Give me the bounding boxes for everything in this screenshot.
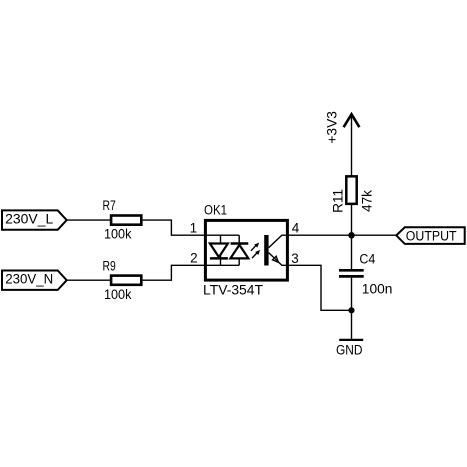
connector flag OUTPUT: [396, 227, 464, 244]
svg-text:LTV-354T: LTV-354T: [203, 283, 263, 298]
phototransistor base bar (OK1): [264, 235, 268, 266]
resistor R7: [111, 216, 141, 225]
wire R11 to node A: [351, 204, 353, 235]
LED D1 (anode up, pointing down): [210, 244, 228, 259]
optocoupler OK1 body: [205, 220, 287, 280]
wire node A to C4: [351, 235, 353, 269]
wire LED frame vertical left: [220, 235, 222, 265]
svg-text:OUTPUT: OUTPUT: [406, 229, 457, 244]
svg-text:R11: R11: [331, 189, 346, 213]
light arrow 2: [252, 250, 260, 258]
wire R9 to pin 2: [143, 265, 240, 280]
svg-text:R7: R7: [103, 198, 116, 213]
svg-text:C4: C4: [359, 251, 375, 266]
phototransistor emitter line: [269, 253, 282, 266]
svg-text:+3V3: +3V3: [325, 111, 340, 144]
svg-text:100k: 100k: [104, 227, 132, 242]
svg-text:GND: GND: [336, 343, 363, 358]
wire C4 to node B: [351, 278, 353, 311]
wire 230V_L to R7: [67, 219, 111, 221]
svg-text:4: 4: [292, 221, 300, 236]
resistor R11: [346, 176, 356, 204]
wire pin 3 to node GND-side of C4: [282, 265, 352, 310]
svg-text:47k: 47k: [359, 190, 374, 212]
light arrow 1: [251, 243, 259, 251]
node A junction dot: [348, 232, 355, 239]
ground: [339, 339, 363, 341]
svg-text:100n: 100n: [362, 281, 393, 296]
wire LED frame vertical right: [238, 235, 240, 265]
svg-text:230V_L: 230V_L: [5, 212, 54, 227]
connector flag 230V_L: [2, 210, 67, 229]
power +3V3 symbol: [344, 114, 360, 176]
phototransistor emitter arrow: [273, 256, 279, 262]
svg-text:2: 2: [190, 251, 198, 266]
phototransistor collector line: [269, 235, 282, 248]
connector flag 230V_N: [2, 271, 67, 290]
wire R7 to pin 1: [143, 220, 240, 235]
node B junction dot: [348, 307, 354, 313]
svg-text:3: 3: [291, 251, 299, 266]
svg-text:100k: 100k: [104, 287, 132, 302]
svg-text:1: 1: [190, 221, 198, 236]
svg-text:R9: R9: [103, 259, 116, 274]
resistor R9: [111, 276, 141, 285]
wire pin 4 to OUTPUT: [282, 234, 397, 236]
LED D2 (anode down, pointing up): [230, 244, 248, 259]
svg-text:OK1: OK1: [204, 203, 227, 218]
svg-text:230V_N: 230V_N: [5, 272, 53, 287]
capacitor C4: [339, 270, 364, 276]
wire node B to ground: [351, 310, 353, 340]
wire 230V_N to R9: [67, 279, 111, 281]
